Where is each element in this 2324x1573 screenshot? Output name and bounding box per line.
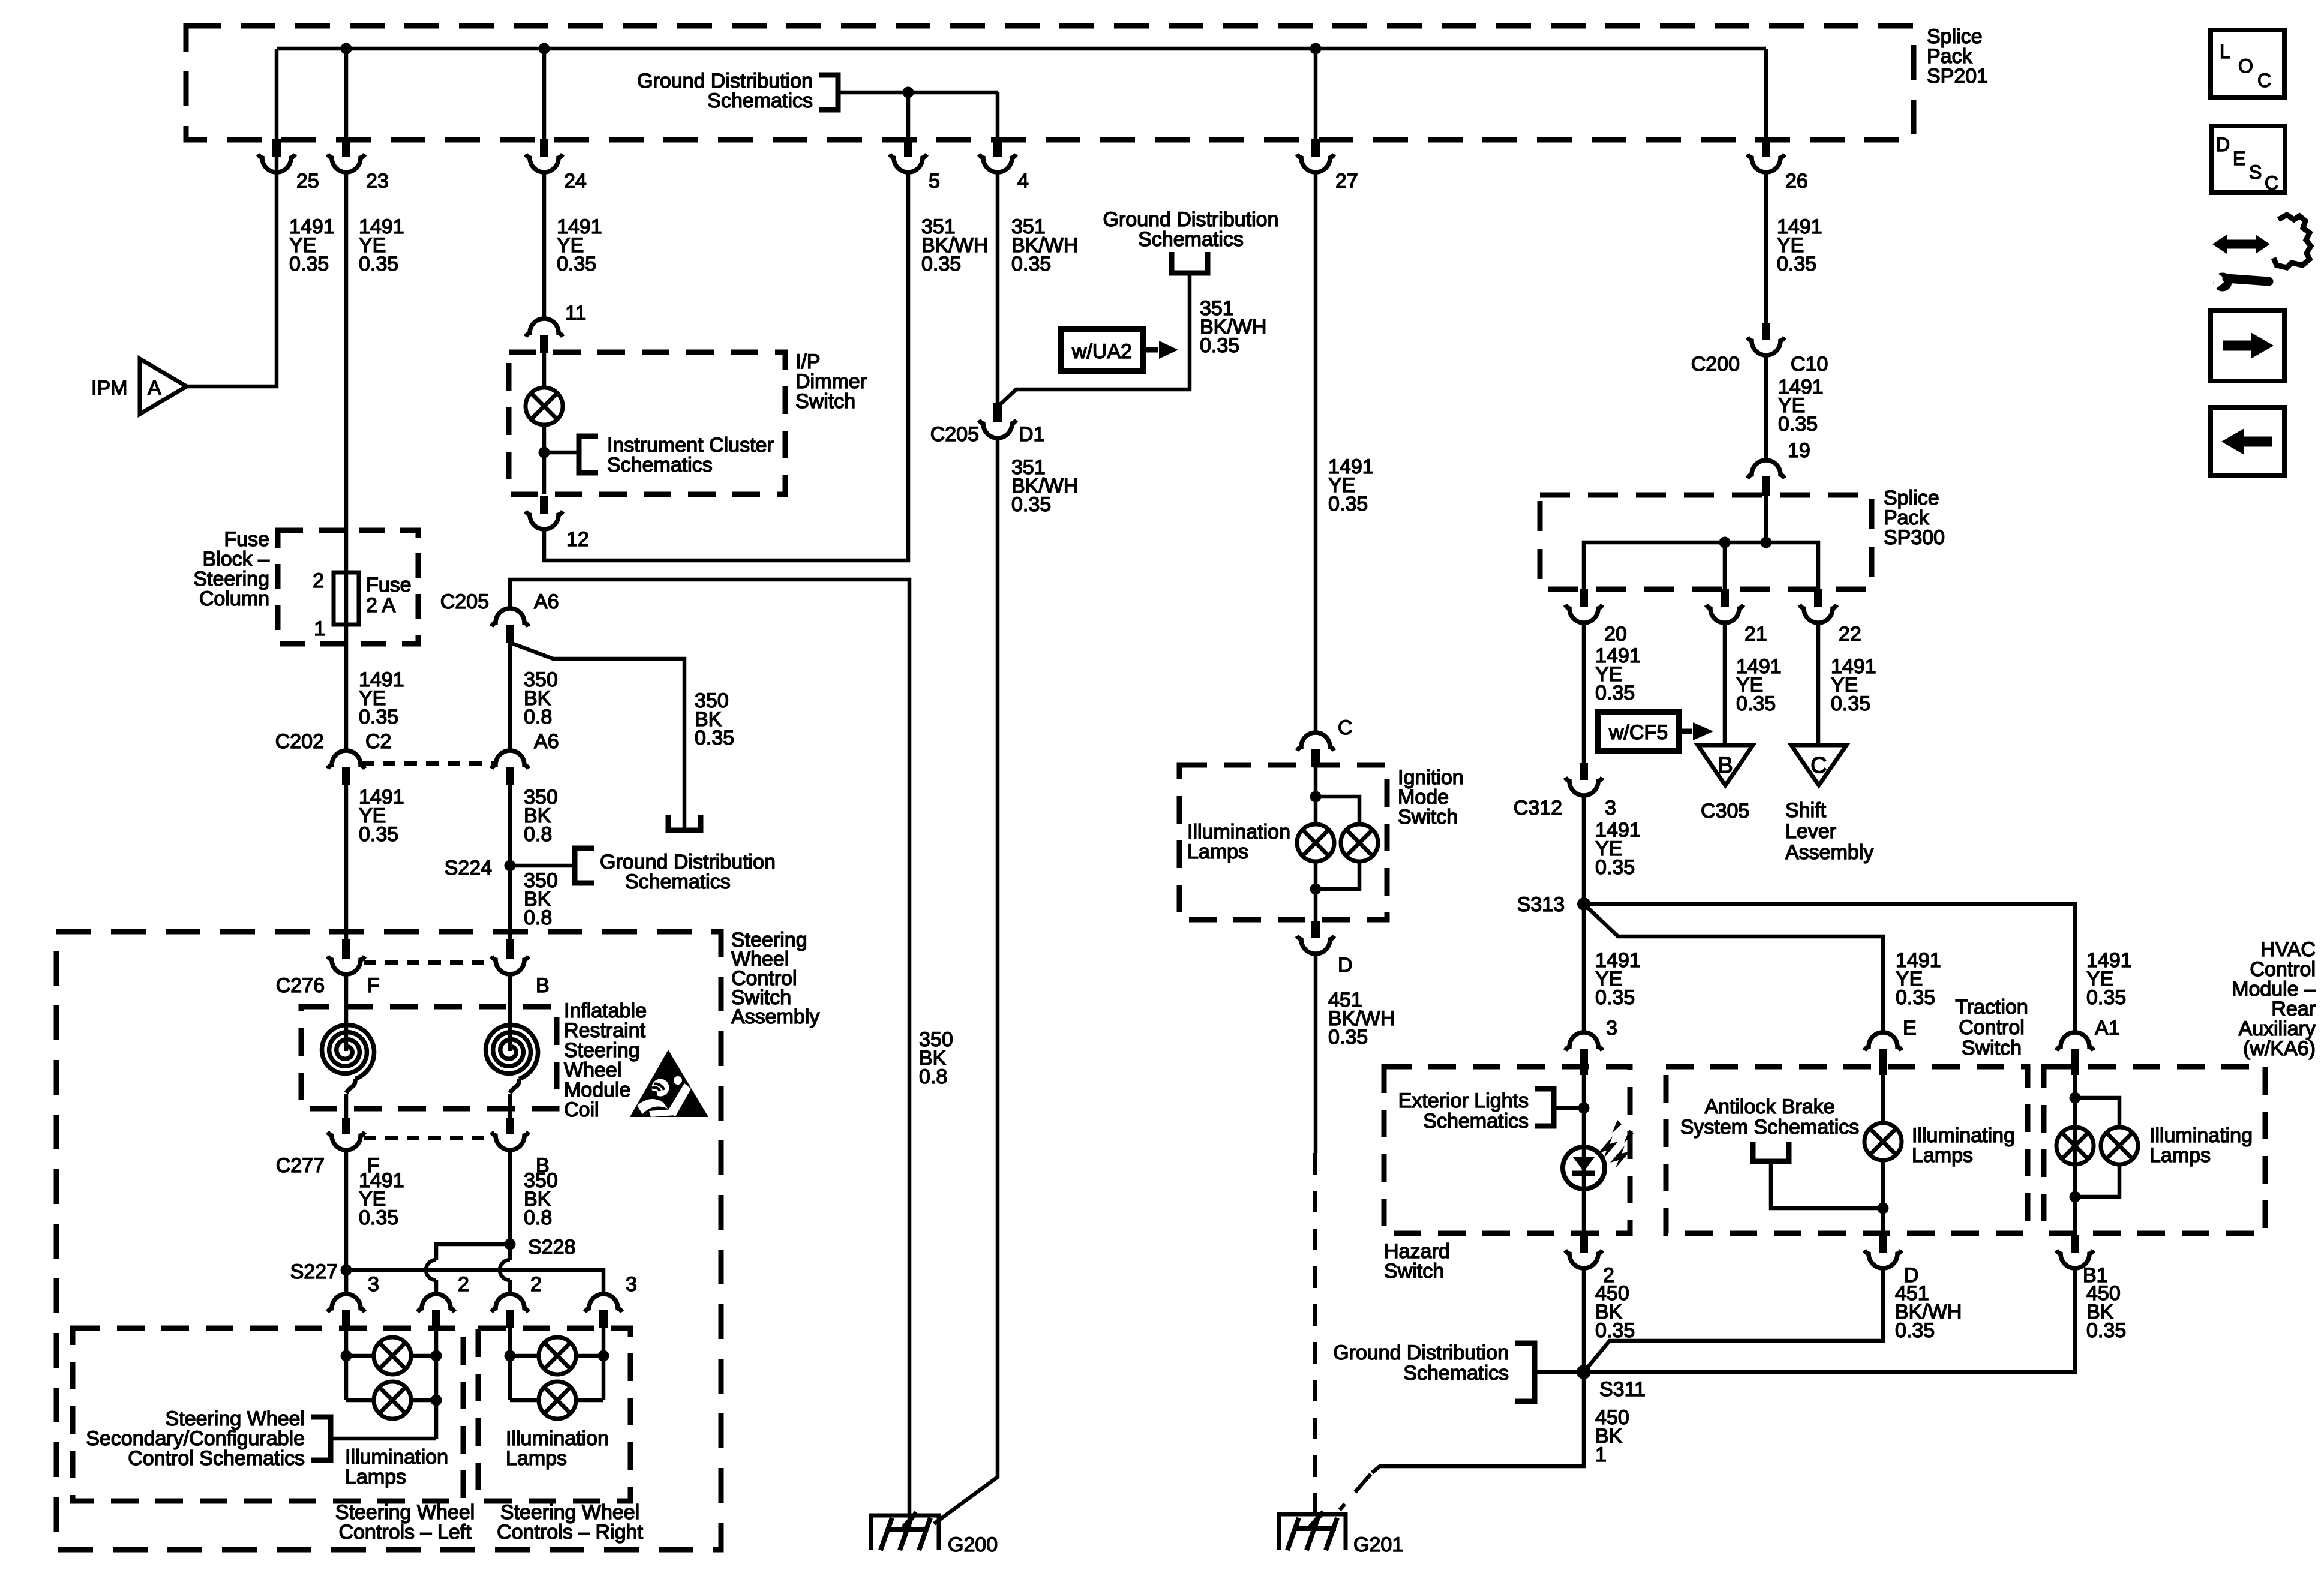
steering wheel control switch assembly dashed box: [56, 932, 721, 1550]
connector pin 19 splice pack SP300: [1747, 460, 1785, 496]
label Illuminating Lamps (traction): [1912, 1124, 2015, 1167]
wire pin E to traction lamp: [1881, 1067, 1885, 1123]
wire label 350 BK 0.8 (below A6): [524, 668, 558, 728]
label Ground Distribution Schematics (S224): [600, 851, 776, 893]
wire label 1491 YE 0.35 (below C200): [1778, 376, 1824, 436]
node lamp left top: [341, 1350, 352, 1362]
svg-text:0.35: 0.35: [921, 253, 961, 275]
node S311: [1577, 1365, 1591, 1379]
connector line C276: [364, 960, 493, 965]
svg-text:Assembly: Assembly: [1785, 841, 1873, 864]
wire S311 to HVAC pin B1: [1584, 1268, 2075, 1372]
illumination lamp right 1: [510, 1337, 603, 1374]
wire 5 drop: [906, 92, 911, 139]
wire into dimmer lamp: [542, 353, 547, 388]
svg-text:0.35: 0.35: [1896, 986, 1935, 1009]
pin number 12: [566, 528, 589, 551]
svg-text:0.35: 0.35: [1831, 692, 1870, 715]
bracket to instrument cluster schematics: [579, 436, 598, 473]
svg-text:2: 2: [530, 1273, 542, 1296]
svg-text:E: E: [2233, 148, 2245, 169]
svg-text:C10: C10: [1791, 353, 1828, 376]
wire label 1491 YE 0.35 (below C202): [359, 786, 404, 846]
wire pin 2 right to lamps: [508, 1328, 512, 1400]
wire pin 3 into hazard LED: [1582, 1067, 1586, 1147]
connector pin D ignition mode switch: [1297, 921, 1334, 954]
fuse block steering column dashed box: [278, 530, 418, 644]
svg-text:L: L: [2220, 41, 2230, 62]
label IPM: [91, 377, 127, 400]
label Inflatable Restraint Steering Wheel Module Coil: [564, 999, 647, 1121]
node bus-23: [341, 43, 352, 55]
svg-text:S228: S228: [528, 1236, 575, 1259]
icon shortcut: [2211, 215, 2311, 292]
wire 25 drop: [275, 49, 279, 139]
svg-text:S311: S311: [1599, 1378, 1646, 1401]
label Ground Distribution Schematics (top middle): [1103, 208, 1279, 251]
label S224: [445, 857, 492, 879]
svg-text:C: C: [2265, 172, 2278, 194]
label Ground Distribution Schematics (S311): [1333, 1341, 1509, 1385]
wire label 350 BK 0.8 (below C202 A6): [524, 786, 558, 846]
node bus-24: [539, 43, 550, 55]
wire lamps to pin D: [1314, 861, 1318, 922]
icon back arrow: [2211, 407, 2284, 476]
connector pin 22 of SP300: [1800, 589, 1837, 623]
wire node to instrument cluster bracket: [544, 451, 579, 455]
label C277: [276, 1154, 325, 1177]
svg-text:5: 5: [929, 170, 940, 193]
wire fuse to C202: [344, 625, 349, 751]
svg-text:Lamps: Lamps: [1187, 840, 1248, 863]
steering wheel controls left dashed box: [73, 1328, 463, 1501]
connector pin 3 steering wheel controls: [585, 1294, 622, 1328]
wire S311 to G201 dashed diagonal: [1340, 1474, 1371, 1510]
node S313: [1577, 897, 1590, 911]
svg-text:1: 1: [314, 617, 325, 640]
label G200: [948, 1533, 998, 1556]
connector pin 27 of SP201: [1297, 139, 1334, 172]
connector pin 2 hazard switch: [1565, 1235, 1602, 1268]
wire label 450 BK 1 (below S311): [1595, 1406, 1629, 1466]
svg-text:24: 24: [564, 170, 587, 193]
wire hazard 2 to S311: [1582, 1268, 1586, 1372]
svg-text:A: A: [148, 377, 161, 400]
wire lamp to node: [542, 425, 547, 494]
wire from bracket to wires 5 and 4: [838, 91, 998, 95]
wire label 1491 YE 0.35 (pin 21): [1736, 655, 1782, 715]
wire label 350 BK 0.8 (to G200): [919, 1028, 953, 1088]
wire 24 drop: [542, 49, 547, 139]
bracket to ground distribution schematics (S311): [1515, 1343, 1535, 1401]
label I/P Dimmer Switch: [795, 350, 867, 413]
illumination lamp left 2: [346, 1382, 436, 1419]
svg-text:C305: C305: [1701, 800, 1749, 822]
pin number 23: [366, 170, 389, 193]
connector pin 21 of SP300: [1706, 589, 1743, 623]
wire label 1491 YE 0.35 (traction drop): [1896, 949, 1941, 1009]
svg-text:C277: C277: [276, 1154, 325, 1177]
HVAC control module dashed box: [2044, 1067, 2265, 1233]
ground G201: [1279, 1512, 1346, 1550]
label A6: [534, 590, 559, 613]
wire label 1491 YE 0.35 (wire 23): [359, 215, 404, 275]
wire pin 20 to C312: [1582, 623, 1586, 763]
svg-text:Switch: Switch: [1398, 806, 1458, 828]
svg-text:0.35: 0.35: [1595, 856, 1635, 879]
wire label 351 BK/WH 0.35 (w/UA2 branch): [1200, 297, 1266, 357]
svg-text:w/UA2: w/UA2: [1071, 340, 1132, 363]
connector pin 12 of I/P dimmer switch: [526, 496, 563, 529]
svg-text:A1: A1: [2095, 1017, 2120, 1040]
icon forward arrow: [2211, 311, 2284, 381]
SRS coil right: [486, 1025, 538, 1094]
wire 12 to splice wire 5: [544, 172, 908, 560]
wire A6 rail: [510, 580, 909, 1529]
svg-text:0.35: 0.35: [1200, 334, 1239, 357]
svg-text:1: 1: [1595, 1443, 1607, 1466]
wire 19 into bus: [1764, 496, 1768, 542]
svg-text:S224: S224: [445, 857, 492, 879]
svg-text:0.35: 0.35: [695, 727, 734, 749]
dimmer illumination lamp: [526, 388, 563, 425]
svg-text:C2: C2: [365, 730, 391, 753]
wire 27 drop: [1314, 49, 1318, 139]
wire 25 to IPM: [187, 139, 277, 386]
wire pin 3 right to lamps: [602, 1328, 606, 1400]
svg-text:D: D: [1338, 954, 1353, 977]
node S224: [505, 860, 516, 872]
svg-text:21: 21: [1744, 623, 1767, 646]
node SP300 pin 21 tap: [1719, 537, 1731, 548]
label SP300: [1884, 487, 1945, 549]
pin number 19: [1788, 439, 1810, 462]
connector C276 pin F: [328, 939, 365, 974]
svg-text:w/CF5: w/CF5: [1608, 721, 1668, 744]
svg-text:Controls – Left: Controls – Left: [338, 1521, 472, 1544]
svg-text:Lamps: Lamps: [345, 1466, 406, 1488]
svg-text:Coil: Coil: [564, 1098, 599, 1121]
bracket under antilock brake reference: [1753, 1142, 1789, 1161]
svg-text:Shift: Shift: [1785, 799, 1827, 822]
svg-text:A6: A6: [534, 590, 559, 613]
svg-text:3: 3: [368, 1273, 379, 1296]
wire S313 to traction control E: [1584, 904, 1883, 1032]
w/CF5 arrow: [1679, 722, 1713, 740]
svg-text:S227: S227: [290, 1260, 338, 1283]
svg-text:System Schematics: System Schematics: [1680, 1116, 1860, 1139]
label Antilock Brake System Schematics: [1680, 1095, 1860, 1139]
wire C277 F to S227: [344, 1151, 349, 1294]
icon DESC: [2211, 126, 2285, 194]
label Illumination Lamps (right): [506, 1427, 609, 1470]
svg-text:Traction: Traction: [1955, 996, 2028, 1019]
pin number 2 (x=850): [530, 1273, 542, 1296]
pin number 3 (x=577): [368, 1273, 379, 1296]
pin number 27: [1335, 170, 1358, 193]
svg-text:Schematics: Schematics: [607, 454, 713, 476]
wire label 350 BK 0.8 (below S224): [524, 869, 558, 929]
label A6 (C202 side): [534, 730, 559, 753]
wire traction lamp to pin D: [1881, 1160, 1885, 1235]
wire 23 to fuse block: [344, 172, 349, 572]
wire SP201 bus: [277, 47, 1766, 51]
node lamp left top right: [431, 1350, 442, 1362]
fuse terminal 2: [313, 569, 324, 592]
svg-text:0.35: 0.35: [359, 823, 398, 846]
wire D to G201 dashed part: [1313, 1153, 1317, 1529]
wire C276 B to coil: [508, 975, 512, 1051]
wire C312 to S313: [1582, 795, 1586, 904]
wire D1 to G200: [934, 438, 998, 1524]
label G201: [1353, 1533, 1403, 1556]
node S227: [341, 1265, 352, 1276]
ignition mode switch dashed box: [1179, 765, 1387, 920]
svg-text:Switch: Switch: [1962, 1037, 2022, 1059]
wire S311 to traction pin D: [1584, 1268, 1883, 1372]
label B (C277): [536, 1154, 550, 1177]
svg-text:Assembly: Assembly: [731, 1005, 819, 1028]
svg-text:C312: C312: [1514, 797, 1562, 819]
wire label 1491 YE 0.35 (above C202): [359, 668, 404, 728]
wire D to G201 solid part: [1314, 954, 1318, 1153]
label Fuse 2 A: [366, 574, 412, 617]
svg-text:2: 2: [313, 569, 324, 592]
wire label 1491 YE 0.35 (wire 27 lower): [1328, 455, 1374, 515]
label Ignition Mode Switch: [1398, 766, 1464, 828]
steering wheel controls right dashed box: [478, 1328, 630, 1501]
node hazard tap: [1578, 1103, 1590, 1114]
svg-text:C205: C205: [930, 423, 979, 446]
svg-text:Column: Column: [199, 587, 269, 610]
svg-text:0.35: 0.35: [1736, 692, 1776, 715]
splice pack SP201 dashed box: [186, 26, 1914, 140]
wire coil left to C277 F: [344, 1094, 349, 1118]
svg-text:C200: C200: [1691, 353, 1740, 376]
label C276: [276, 974, 325, 997]
connector C205 pin A6: [491, 608, 529, 643]
svg-text:C: C: [2257, 70, 2271, 91]
connector C200 pin C10: [1747, 323, 1785, 355]
wire label 1491 YE 0.35 (below C312): [1595, 819, 1641, 879]
node HVAC lamp bottom: [2070, 1191, 2081, 1203]
svg-text:Schematics: Schematics: [1403, 1362, 1509, 1385]
SRS coil left: [322, 1025, 374, 1094]
bracket under ground distribution schematics: [1172, 252, 1208, 273]
ignition illumination lamp 2: [1341, 824, 1378, 861]
svg-text:25: 25: [296, 170, 319, 193]
svg-text:12: 12: [566, 528, 589, 551]
label Ground Distribution Schematics (top left): [637, 70, 813, 112]
wire 23 drop: [344, 49, 349, 139]
label Traction Control Switch: [1955, 996, 2028, 1059]
node lamp right top right: [598, 1350, 609, 1362]
label Shift Lever Assembly: [1785, 799, 1873, 864]
wire coil right to C277 B: [508, 1094, 512, 1118]
label HVAC Control Module - Rear Auxiliary (w/KA6): [2232, 938, 2316, 1060]
svg-text:E: E: [1903, 1017, 1917, 1040]
connector C312 pin 3: [1565, 763, 1602, 795]
svg-text:IPM: IPM: [91, 377, 127, 400]
connector pin D traction control: [1864, 1235, 1902, 1268]
w/UA2 option box: [1061, 329, 1143, 371]
label Illumination Lamps (ignition): [1187, 821, 1290, 863]
node lamp left bottom right: [431, 1395, 442, 1406]
ground G200: [871, 1512, 939, 1550]
label Instrument Cluster Schematics: [607, 434, 774, 476]
pin number 3 (C312): [1605, 797, 1616, 819]
bracket to ground distribution schematics (top left): [819, 75, 838, 110]
pin number 21: [1744, 623, 1767, 646]
svg-text:Antilock Brake: Antilock Brake: [1704, 1095, 1834, 1118]
wire 4 drop: [996, 92, 1000, 139]
node S228: [505, 1239, 516, 1250]
off-page triangle B: [1698, 745, 1753, 785]
svg-text:0.35: 0.35: [1595, 1319, 1635, 1342]
wire label 1491 YE 0.35 (wire 26): [1777, 215, 1822, 275]
wire C202 to C276: [344, 785, 349, 943]
connector C205 pin D1: [979, 403, 1016, 438]
svg-text:0.8: 0.8: [524, 1206, 552, 1229]
label C200: [1691, 353, 1740, 376]
svg-text:2 A: 2 A: [366, 594, 395, 617]
svg-text:0.8: 0.8: [524, 706, 552, 728]
pin letter D (traction): [1904, 1264, 1919, 1287]
wire bracket to hazard node: [1554, 1106, 1584, 1110]
pin number 2 (x=727): [458, 1273, 469, 1296]
wire SP300 pin 21 drop: [1723, 542, 1727, 589]
svg-text:Schematics: Schematics: [1138, 228, 1244, 251]
svg-text:0.35: 0.35: [289, 253, 329, 275]
inflatable restraint coil dashed box: [301, 1007, 557, 1109]
wire 4 to C205 D1: [996, 172, 1000, 403]
svg-text:0.35: 0.35: [1011, 493, 1051, 516]
svg-text:0.35: 0.35: [1595, 986, 1635, 1009]
wire A6 to C202 A6: [508, 643, 512, 751]
svg-text:Schematics: Schematics: [1423, 1110, 1529, 1133]
connector C277 pin B: [491, 1118, 529, 1150]
label D1: [1019, 423, 1044, 446]
svg-text:4: 4: [1017, 170, 1029, 193]
svg-text:0.35: 0.35: [2086, 986, 2126, 1009]
connector pin 26 of SP201: [1747, 139, 1785, 172]
svg-text:23: 23: [366, 170, 389, 193]
w/UA2 arrow: [1143, 341, 1178, 359]
svg-text:G201: G201: [1353, 1533, 1403, 1556]
wire label 450 BK 0.35 (HVAC): [2086, 1282, 2126, 1342]
svg-text:Controls – Right: Controls – Right: [497, 1521, 643, 1544]
wire 24 to connector 11: [542, 172, 547, 319]
node ignition lamp top: [1310, 791, 1322, 803]
connector pin A1 HVAC: [2056, 1032, 2094, 1075]
svg-text:0.8: 0.8: [919, 1065, 947, 1088]
pin number 4: [1017, 170, 1029, 193]
label C10: [1791, 353, 1828, 376]
svg-text:SP300: SP300: [1884, 526, 1945, 549]
connector pin 5 of SP201: [890, 139, 927, 172]
svg-text:3: 3: [1606, 1017, 1617, 1040]
pin number 11: [565, 302, 586, 325]
svg-text:Schematics: Schematics: [625, 870, 731, 893]
wire label 451 BK/WH 0.35 (traction): [1895, 1282, 1962, 1342]
svg-text:0.35: 0.35: [1011, 253, 1051, 275]
wire HVAC lamp branch: [2075, 1098, 2119, 1197]
wire label 351 BK/WH 0.35 (wire 4): [1011, 215, 1078, 275]
svg-text:S: S: [2249, 161, 2262, 183]
label Steering Wheel Secondary/Configurable Control Schematics: [86, 1407, 305, 1470]
svg-text:0.35: 0.35: [359, 253, 398, 275]
label S313: [1517, 893, 1565, 916]
node at wire 5: [903, 87, 914, 98]
wire SP300 bus: [1584, 542, 1818, 589]
node ignition lamp bottom: [1310, 884, 1322, 895]
wire label 350 BK 0.35 (branch): [695, 689, 734, 749]
wire pin C to lamps: [1314, 767, 1318, 824]
node traction lamp bottom: [1878, 1203, 1889, 1214]
splice pack SP300 dashed box: [1540, 495, 1872, 589]
svg-text:0.35: 0.35: [1328, 1026, 1368, 1049]
traction control switch dashed box: [1666, 1067, 2028, 1233]
pin number 3 (x=1006): [626, 1273, 637, 1296]
label C202: [275, 730, 324, 753]
svg-text:C276: C276: [276, 974, 325, 997]
bracket to steering wheel secondary schematics: [311, 1417, 331, 1460]
SRS warning triangle: [630, 1050, 708, 1117]
wire label 450 BK 0.35 (hazard): [1595, 1282, 1635, 1342]
I/P dimmer switch dashed box: [509, 352, 785, 494]
svg-text:Ground Distribution: Ground Distribution: [1333, 1341, 1509, 1364]
label SP201: [1927, 25, 1988, 88]
HVAC illuminating lamp 1: [2056, 1127, 2094, 1164]
svg-text:B: B: [1718, 753, 1733, 778]
svg-text:Switch: Switch: [795, 390, 855, 413]
IPM off-page triangle A: [140, 359, 187, 414]
bracket above ground distribution schematics (S224 area): [668, 815, 701, 830]
wire label 1491 YE 0.35 (HVAC drop): [2086, 949, 2132, 1009]
label S228: [528, 1236, 575, 1259]
svg-text:3: 3: [626, 1273, 637, 1296]
wire 26 to C200: [1764, 172, 1768, 323]
svg-text:C205: C205: [440, 590, 489, 613]
svg-text:Fuse: Fuse: [366, 574, 412, 596]
svg-text:C202: C202: [275, 730, 324, 753]
bracket to ground distribution schematics (S224): [575, 848, 594, 883]
pin number 24: [564, 170, 587, 193]
connector line C202: [361, 761, 496, 766]
label C205 (A6 side): [440, 590, 489, 613]
connector C276 pin B: [491, 939, 529, 974]
connector C202 pin C2: [328, 751, 365, 785]
label C305: [1701, 800, 1749, 822]
node lamp right top left: [505, 1350, 516, 1362]
connector pin B1 HVAC: [2056, 1235, 2094, 1268]
svg-text:0.8: 0.8: [524, 906, 552, 929]
ignition illumination lamp 1: [1297, 824, 1334, 861]
wire label 350 BK 0.8 (below C277 B): [524, 1169, 558, 1229]
wire S224 to bracket: [510, 864, 575, 868]
node SP300 input: [1761, 537, 1772, 548]
illumination lamp right 2: [510, 1382, 603, 1419]
connector pin 2 steering wheel controls: [491, 1294, 529, 1328]
fuse terminal 1: [314, 617, 325, 640]
svg-text:S313: S313: [1517, 893, 1565, 916]
svg-text:(w/KA6): (w/KA6): [2243, 1037, 2316, 1060]
wire label 1491 YE 0.35 (wire 25): [289, 215, 335, 275]
connector pin E traction control: [1864, 1032, 1902, 1075]
wire S228 to pin 2 right: [500, 1244, 510, 1294]
node bus-27: [1310, 43, 1322, 55]
wire pin 22 to triangle C: [1816, 623, 1821, 745]
